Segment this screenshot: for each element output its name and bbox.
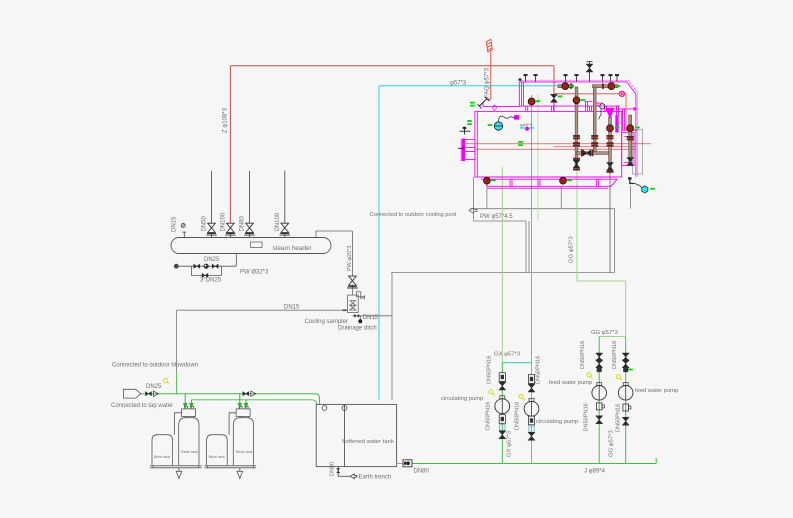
branch pipe [625,337,627,464]
sampler return line DN15 [177,310,348,372]
valve upper [596,353,603,361]
riser DN100b [284,171,286,238]
label green w2 [567,179,572,181]
svg-text:Brine tank: Brine tank [154,455,170,459]
svg-text:DN100: DN100 [221,212,227,231]
svg-text:φ48*3: φ48*3 [520,122,533,127]
drain valve 2 [212,264,218,268]
drum cap tick [519,78,522,80]
flanged circle P1 top [573,97,580,104]
reducer symbol [397,463,403,465]
sample tap line [316,231,352,295]
drain run [176,265,236,267]
svg-text:Connected to outdoor blowdown: Connected to outdoor blowdown [112,362,198,368]
fitting lower [623,404,629,411]
sampler inlet stub [343,309,347,311]
svg-text:GX φ57*3: GX φ57*3 [494,351,521,357]
cooling sampler body [348,295,359,312]
svg-text:feed water pump: feed water pump [549,380,592,386]
front stub tick [458,147,465,149]
FAQ riser [487,51,491,99]
outer casing outline [519,80,637,176]
tap valve 2 [243,392,249,396]
sampler outlet valve [354,314,359,318]
mini valve t5b [609,74,613,81]
svg-text:Connected to tap water: Connected to tap water [111,403,173,409]
drain trap [204,264,209,269]
svg-text:Softened water tank: Softened water tank [342,439,394,445]
spool 2 [529,426,534,432]
valve P1 bottom [573,160,580,168]
gauge yellow [587,373,593,379]
drum fitting cluster [585,102,603,112]
riser DN100 [229,234,231,238]
check valve 1 [154,391,159,396]
waterline red 3 [474,148,636,150]
svg-text:PW φ57*4.5: PW φ57*4.5 [480,214,513,220]
tap water main [141,394,320,405]
flanged circle P4 [627,125,634,132]
head valve 2 [236,409,250,417]
svg-text:feed water pump: feed water pump [635,388,678,394]
boiler shell [461,80,637,177]
tap valve 1 [146,392,152,396]
valve lower [622,417,629,425]
inlet drop 1 [184,394,187,408]
svg-text:J φ89*4: J φ89*4 [584,468,606,474]
sampler top valve [361,296,365,299]
valve lower [596,416,603,424]
svg-text:Connected to outdoor cooling p: Connected to outdoor cooling pool [370,212,457,218]
head valve 1 [182,409,196,417]
main water line [412,458,656,464]
mini valve t1 [524,74,528,81]
vent cap 1 [322,406,327,411]
drain valve 1 [194,264,200,268]
riser DN50 [211,171,213,238]
valve DN100b [280,223,291,235]
safety valve [586,64,593,72]
front manhole lower [463,152,475,160]
pipe P1 feed [573,87,580,171]
trench mini symbol [336,468,340,473]
drain bypass loop [191,266,221,275]
level gauge squiggle [499,116,515,122]
svg-text:Resin tank: Resin tank [181,450,198,454]
gauge yellow [489,390,495,396]
label green t1 [570,85,575,87]
branch pipe [598,337,600,464]
feed gauge [600,104,605,109]
gauge yellow tap [164,379,170,385]
svg-text:GG φ57*3: GG φ57*3 [591,330,618,336]
branch pipe [501,363,503,464]
label green P3 [615,127,620,129]
wire PW drop [614,209,616,273]
base 1 [150,466,202,468]
gauge circle DN15 [181,224,185,228]
riser DN80 [249,171,251,238]
label green pair left [467,120,472,122]
svg-text:steam header: steam header [273,245,313,252]
earth trench drop [338,467,350,477]
boiler drain elbow [630,177,634,184]
mini valve t5 [601,74,605,81]
svg-text:DN80: DN80 [414,468,430,474]
rear risers [617,106,619,115]
rear header arrow [634,107,638,111]
svg-text:Earth trench: Earth trench [359,475,392,481]
svg-text:GX φ57*3: GX φ57*3 [507,430,513,457]
fitting upper [597,367,602,372]
sampler drain dot [358,319,362,323]
suction line from boiler (cyan) [531,95,533,464]
svg-text:circulating pump: circulating pump [536,419,578,425]
svg-text:DN50PN16: DN50PN16 [580,341,586,369]
pump circle [524,401,539,416]
label green w1 [491,179,496,181]
valve P3 bottom [607,163,614,171]
gate valve cross [583,150,591,156]
front flange lines [461,139,463,161]
riser stub c [590,106,592,111]
drum left flanges [522,82,524,106]
FAQ source valve [478,97,490,109]
svg-text:PW φ25*3: PW φ25*3 [347,246,353,271]
label green n1 [470,102,475,104]
mini valve t2 [534,74,538,81]
steam riser vertical [229,66,231,223]
riser stub b [552,106,554,111]
label green t5 [581,99,586,101]
GX tie line [502,362,531,364]
drain arrow 1 [176,468,182,479]
sample valve [347,276,358,288]
drain pot cyan [642,186,648,193]
pump circle [592,386,607,401]
outlet drop 1 [190,400,193,408]
riser stub d [605,106,607,111]
PW header line [470,208,615,210]
sampler outlet [352,315,392,317]
waterline red 2 [554,146,636,148]
svg-text:DN80: DN80 [330,462,336,476]
drain end cap [174,264,179,269]
brine tank 2 [207,435,228,466]
inlet drop 2 [238,394,241,408]
wire skid drain [560,187,562,209]
label green t4 [558,96,563,98]
label magenta dash [525,127,529,131]
flanged circle P3 [607,125,614,132]
node downcomer teal [531,95,533,177]
node riser pale green [537,94,539,221]
svg-text:DN80: DN80 [240,215,246,231]
svg-text:GG φ57*3: GG φ57*3 [569,236,575,263]
svg-text:DN50PN16: DN50PN16 [487,356,493,384]
svg-text:circulating pump: circulating pump [441,396,483,402]
pipe P3 blowdown [607,117,614,173]
flanged valve topview 1 [562,83,569,90]
drain squiggle [634,183,643,187]
feed valve body magenta [606,108,615,119]
label green t2 [616,85,621,87]
fitting lower [499,415,505,424]
steam stop valve [551,94,558,102]
nameplate rect on header [251,242,263,248]
PW return run [391,272,615,274]
svg-text:Cooling sampler: Cooling sampler [305,319,348,325]
resin tank 2 [233,418,253,466]
pipe P4 [627,115,634,166]
drum top band [519,82,636,177]
sampler drain stub [359,316,361,320]
gauge yellow [616,375,622,381]
rear door panel [633,130,643,175]
svg-text:DN50: DN50 [202,215,208,231]
pump circle [618,386,633,401]
flanged valve topview 3 [528,98,535,105]
svg-text:DN100: DN100 [275,212,281,231]
front t-bar fitting [460,128,471,135]
vent cap 2 [342,406,347,411]
valve lower [528,432,535,440]
svg-text:DN25: DN25 [146,384,162,390]
GG run [577,280,626,282]
svg-text:DN50PN16: DN50PN16 [584,403,590,431]
base skid [481,177,617,188]
pipe P2 [591,87,598,154]
suction line from boiler [501,167,503,363]
svg-text:Z φ108*3: Z φ108*3 [223,107,229,133]
svg-text:GG φ57*3: GG φ57*3 [608,430,614,457]
wire rear blowdown drop [609,172,611,273]
svg-text:DN15: DN15 [284,305,300,311]
brine suction 1 [175,413,182,435]
GG drop to pumps [625,281,627,337]
wire return to tap line (green) [176,372,178,394]
label green n2 [470,105,475,107]
cooling pool arrow [469,208,477,213]
shell inner line [476,111,478,177]
steam header vessel [171,238,331,254]
softened water out line [191,400,316,405]
svg-text:DN50PN16: DN50PN16 [612,341,618,369]
mini valve t4 [575,74,579,81]
mini valve t3 [564,74,568,81]
wire PW to tank [391,273,393,401]
mini valve t6 [615,74,619,81]
valve DN80 [244,223,255,235]
gauge on shell top [492,105,496,109]
fitting upper [499,373,505,382]
valve upper [528,384,535,392]
svg-text:Resin tank: Resin tank [236,450,253,454]
steam line horizontal [230,65,554,67]
svg-text:φ57*3: φ57*3 [450,81,467,87]
label cyan dash [520,127,526,129]
valve upper [622,353,629,361]
rear economizer box [622,133,634,166]
flanged valve topview 2 [608,83,615,90]
GG pump manifold [599,336,626,338]
svg-text:FAQ φ57*3: FAQ φ57*3 [484,67,490,98]
outlet drop 2 [244,400,247,408]
gauge yellow [519,394,525,400]
pump circle [495,399,510,414]
brine suction 2 [229,413,236,435]
valve upper [499,382,506,390]
resin tank 1 [179,418,199,466]
ring takeoff circle [619,91,624,96]
spool 1 [500,425,505,431]
front manhole upper [463,140,475,148]
tank divider [344,404,346,466]
cyan vertical to tank [378,86,380,400]
brine tank 1 [152,435,173,466]
skid wheel 1 [484,177,491,184]
rear header line [616,109,637,130]
steam pipe into drum red [554,93,626,95]
steam drop to boiler [553,66,555,94]
svg-text:DN25: DN25 [204,257,220,263]
svg-text:DN50PN16: DN50PN16 [515,402,521,430]
drain bypass valve [202,273,208,277]
wire valve to drum [483,103,519,106]
svg-text:Drainage ditch: Drainage ditch [338,325,377,331]
riser DN15 [182,232,186,238]
fitting lower [596,403,602,410]
drain arrow 2 [237,468,243,479]
drain drop [235,254,237,267]
rear drop pair [623,109,625,130]
flue line orange [625,94,627,130]
svg-text:DN15: DN15 [363,315,379,321]
earth trench arrow [350,474,357,479]
waterline red [462,143,651,145]
tank body [316,404,396,466]
fitting upper [528,375,534,384]
valve DN50 [206,223,217,235]
gauge fitting [515,116,519,120]
riser stub a [526,106,528,111]
label green t3 [536,100,541,102]
svg-text:DN50PN16: DN50PN16 [536,356,542,384]
label green drain [650,188,655,190]
label green P4 [635,127,640,129]
wire steam into drum [553,103,555,112]
svg-text:3°DN25: 3°DN25 [200,278,222,284]
svg-text:DN50PN16: DN50PN16 [616,404,622,432]
rear downcomer bar [615,115,618,133]
drum steam stub B (brown) [593,85,619,88]
svg-text:Brine tank: Brine tank [209,455,225,459]
tap water flag [124,389,142,398]
valve P4 bottom [627,158,634,166]
label green gauge [488,124,493,126]
base 2 [205,466,257,468]
wire boiler front drain [486,182,488,209]
wire rear drain [630,186,632,209]
vent hatch symbol [486,39,492,52]
check valve 2 [251,391,256,396]
wire front blowoff [474,177,530,273]
svg-text:DN15: DN15 [172,216,178,232]
skid wheel 2 [560,177,567,184]
cross pipe P2-P3 [577,152,611,155]
cyan horizontal line [379,85,558,87]
fitting lower [528,416,534,425]
label green pair mid [518,141,523,143]
fitting upper [623,367,628,372]
svg-text:PW Ø32*3: PW Ø32*3 [240,270,269,276]
GG drop from boiler [576,108,578,281]
sampler top fitting [357,292,361,297]
valve DN100 [225,223,236,235]
level gauge float [494,122,502,130]
svg-text:DN50PN16: DN50PN16 [486,402,492,430]
drum steam stub A (brown) [558,85,573,88]
valve lower [499,431,506,439]
